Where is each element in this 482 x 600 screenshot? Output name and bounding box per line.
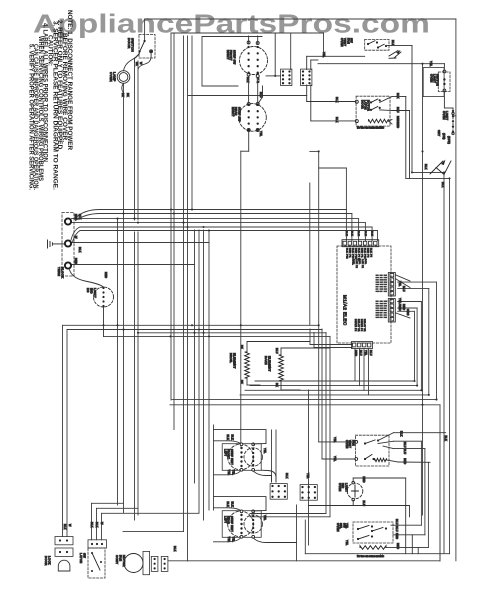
wire — [398, 301, 422, 303]
wire — [100, 209, 346, 211]
wire — [80, 230, 378, 232]
svg-text:BLK: BLK — [350, 231, 352, 236]
svg-text:RED: RED — [74, 214, 78, 220]
svg-text:DOL: DOL — [364, 259, 366, 265]
svg-text:BLK: BLK — [371, 231, 373, 236]
door lock connectors — [55, 537, 73, 545]
svg-text:RED: RED — [403, 458, 407, 464]
wire — [240, 394, 429, 396]
wire — [386, 44, 412, 46]
ground — [48, 240, 65, 248]
latch connectors — [88, 540, 107, 548]
output wires right — [392, 96, 406, 98]
svg-text:BLK P5: BLK P5 — [369, 248, 371, 258]
svg-text:SWITCH: SWITCH — [436, 74, 440, 86]
svg-text:BLK: BLK — [78, 247, 82, 253]
svg-text:YEL: YEL — [306, 473, 310, 479]
wire — [208, 230, 210, 510]
wire — [455, 19, 457, 561]
svg-text:RED: RED — [395, 533, 399, 539]
svg-text:BLK P12: BLK P12 — [345, 248, 347, 259]
svg-text:RED: RED — [104, 272, 108, 278]
wire — [345, 210, 347, 241]
svg-text:BLU: BLU — [359, 350, 363, 356]
wire — [345, 168, 347, 210]
surface unit switch right rear — [239, 104, 267, 132]
wire — [173, 33, 175, 430]
svg-text:BLK: BLK — [357, 231, 359, 236]
door latch heater — [369, 119, 389, 123]
svg-text:SURF SW: SURF SW — [232, 50, 236, 65]
svg-text:RED: RED — [396, 543, 400, 549]
wire — [248, 36, 250, 44]
board right connector 1 — [388, 273, 395, 297]
lower contact + heater — [364, 458, 366, 460]
svg-text:BLU: BLU — [395, 526, 399, 532]
wire — [250, 513, 326, 515]
connector P4 — [301, 69, 312, 86]
svg-text:W: W — [74, 236, 78, 239]
wire — [443, 172, 445, 553]
svg-text:SURF UNIT: SURF UNIT — [230, 449, 233, 465]
svg-text:GRY: GRY — [437, 130, 441, 136]
svg-text:BLU: BLU — [395, 519, 399, 525]
svg-text:TERM: TERM — [57, 267, 61, 277]
svg-text:BLK: BLK — [246, 77, 250, 83]
svg-text:RED: RED — [74, 258, 78, 264]
board top connector — [342, 240, 379, 247]
oven lamp — [117, 71, 130, 84]
wire lamp to switch — [124, 53, 140, 71]
svg-text:BLK: BLK — [231, 435, 235, 441]
wire — [101, 513, 103, 540]
control board M1/A2 ELEC — [337, 246, 391, 343]
svg-text:BLK: BLK — [173, 546, 177, 552]
svg-text:LEFT: LEFT — [223, 449, 226, 456]
wire — [368, 349, 370, 395]
relay contact — [367, 43, 369, 45]
svg-text:ORG: ORG — [406, 309, 410, 316]
right drop — [439, 405, 441, 561]
wire — [137, 61, 139, 220]
svg-text:BLK: BLK — [285, 473, 289, 479]
svg-text:BLU: BLU — [275, 348, 279, 354]
wire — [274, 33, 276, 76]
latch switch box — [88, 548, 105, 578]
wire — [92, 502, 124, 504]
wire — [137, 232, 139, 515]
svg-text:ELEMENT: ELEMENT — [268, 356, 272, 372]
svg-text:YEL: YEL — [345, 523, 349, 529]
door lock solenoid — [58, 560, 70, 571]
svg-text:SURF SW: SURF SW — [237, 107, 241, 122]
svg-text:DOOR: DOOR — [44, 556, 48, 566]
wire — [318, 151, 320, 442]
wire — [325, 333, 327, 514]
svg-text:RED P8: RED P8 — [366, 248, 368, 258]
svg-text:YEL: YEL — [429, 61, 433, 67]
junction arrow — [430, 161, 451, 175]
svg-text:BLK: BLK — [231, 502, 235, 508]
top bus — [145, 18, 456, 20]
wire BLU from rear unit — [258, 97, 263, 104]
svg-text:DOOR: DOOR — [127, 38, 131, 49]
wire — [96, 508, 98, 540]
wire — [170, 33, 172, 400]
wire — [313, 333, 315, 348]
wire — [138, 332, 326, 334]
box edge — [201, 37, 203, 87]
wire — [359, 349, 361, 386]
svg-text:RED: RED — [396, 122, 400, 128]
svg-text:(ON): (ON) — [442, 133, 446, 140]
svg-text:AppliancePartsPros.com: AppliancePartsPros.com — [33, 10, 430, 38]
wire — [91, 503, 93, 540]
svg-text:DRIVE P2: DRIVE P2 — [354, 319, 356, 332]
svg-text:BLK: BLK — [226, 435, 230, 441]
wire — [310, 344, 352, 346]
wire — [275, 430, 277, 482]
wire — [398, 310, 415, 312]
svg-text:BLK: BLK — [444, 436, 448, 442]
svg-text:BLK: BLK — [391, 40, 395, 46]
wire — [371, 227, 373, 241]
latch switch — [91, 552, 93, 554]
svg-text:OVEN: OVEN — [109, 72, 113, 82]
wire — [72, 242, 210, 244]
svg-text:BK: BK — [275, 383, 279, 387]
wire — [323, 33, 325, 56]
wire — [422, 64, 424, 515]
terminals — [355, 100, 358, 103]
svg-text:BLK: BLK — [345, 231, 347, 236]
svg-text:RED: RED — [402, 304, 406, 310]
svg-text:RED: RED — [362, 477, 366, 483]
door switch box — [139, 35, 155, 59]
svg-text:YEL: YEL — [364, 350, 368, 356]
wire — [364, 223, 366, 241]
svg-text:BLK: BLK — [424, 164, 428, 170]
oven light switch enclosure — [423, 68, 444, 97]
svg-text:FRONT: FRONT — [227, 449, 230, 459]
junction dots — [116, 218, 118, 220]
wire — [134, 61, 136, 220]
heating element — [375, 458, 387, 461]
switch — [371, 530, 373, 532]
svg-text:BLK: BLK — [226, 502, 230, 508]
wire — [363, 349, 365, 390]
svg-text:BLU: BLU — [402, 286, 406, 292]
svg-text:BLK: BLK — [63, 524, 67, 530]
feed wires — [307, 101, 356, 103]
wire — [104, 335, 331, 337]
door switch — [144, 40, 146, 42]
wire — [72, 218, 359, 220]
svg-text:DOL: DOL — [352, 259, 354, 265]
svg-text:SWITCH: SWITCH — [131, 38, 135, 52]
svg-text:LOCK: LOCK — [47, 556, 51, 565]
svg-text:LAMP: LAMP — [113, 72, 117, 82]
wire — [420, 441, 422, 525]
wire — [250, 516, 330, 518]
svg-text:BLK: BLK — [95, 522, 99, 528]
wire — [424, 449, 426, 535]
wire — [191, 36, 193, 210]
relay contact — [377, 46, 379, 48]
bottom bus — [168, 560, 440, 562]
svg-text:SURF UNIT: SURF UNIT — [230, 516, 233, 532]
wire — [202, 36, 262, 38]
connector P1 bottom — [270, 484, 287, 500]
wire — [354, 349, 356, 381]
svg-text:BLK: BLK — [364, 231, 366, 236]
svg-text:YEL: YEL — [345, 540, 349, 546]
wire — [97, 507, 139, 509]
svg-text:RED P1: RED P1 — [360, 248, 362, 258]
wire — [80, 226, 372, 228]
convection fan motor — [124, 554, 143, 573]
svg-text:W: W — [68, 524, 72, 527]
wire — [123, 84, 125, 513]
wire curves to terminal — [76, 210, 101, 221]
oven indicator light — [347, 483, 363, 499]
wire — [439, 520, 441, 561]
wire — [138, 53, 151, 69]
heating element — [245, 352, 250, 378]
svg-text:HS: HS — [86, 288, 90, 293]
contact — [370, 101, 372, 103]
svg-text:BK: BK — [240, 380, 244, 384]
svg-text:LIGHT: LIGHT — [445, 111, 449, 120]
svg-text:DOL: DOL — [358, 259, 360, 265]
wire — [308, 390, 310, 545]
door switch feed — [144, 19, 146, 41]
oven switch box — [356, 96, 390, 126]
wire — [123, 531, 184, 533]
wires surface unit lower — [214, 497, 267, 511]
svg-text:L1N P2: L1N P2 — [361, 259, 363, 269]
wire — [198, 230, 200, 513]
svg-text:SW: SW — [82, 553, 86, 558]
board bottom connector — [352, 342, 373, 349]
wire — [203, 230, 205, 520]
wire — [443, 64, 445, 70]
wire — [427, 462, 429, 547]
svg-text:DRIVE P2: DRIVE P2 — [360, 319, 362, 332]
surface unit left rear + infinite switch — [222, 511, 261, 538]
wire — [398, 307, 417, 309]
svg-text:(OFF): (OFF) — [447, 136, 451, 144]
svg-text:IND: IND — [90, 288, 94, 294]
svg-text:MOTOR: MOTOR — [367, 100, 371, 111]
wire — [310, 150, 319, 152]
wire — [240, 151, 242, 446]
svg-text:for use on some models: for use on some models — [357, 126, 385, 130]
svg-text:M1/A2 ELEC: M1/A2 ELEC — [343, 295, 348, 326]
svg-text:LIGHT: LIGHT — [93, 288, 97, 298]
svg-text:BLU: BLU — [259, 92, 263, 98]
wire — [213, 425, 215, 510]
wire — [72, 264, 195, 266]
wire — [67, 329, 322, 331]
wire — [172, 399, 437, 401]
indicator wires — [352, 478, 354, 482]
svg-text:BLK: BLK — [78, 214, 82, 220]
wire — [72, 222, 366, 224]
svg-text:LEFT: LEFT — [223, 516, 226, 523]
wire — [314, 347, 352, 349]
wire — [329, 336, 331, 517]
svg-text:YEL: YEL — [263, 515, 267, 521]
wire — [117, 219, 119, 505]
svg-text:BK: BK — [240, 345, 244, 349]
svg-text:BLK: BLK — [396, 93, 400, 99]
oven selector switch box — [353, 522, 393, 543]
svg-text:SW: SW — [350, 38, 354, 43]
surface indicator light — [94, 287, 114, 307]
wire — [428, 289, 430, 395]
wire — [248, 132, 250, 152]
wires surface unit upper — [214, 430, 267, 444]
wire — [309, 329, 311, 345]
svg-text:BLK: BLK — [400, 431, 404, 437]
wire — [102, 512, 200, 514]
junction arrow — [389, 51, 401, 59]
svg-text:REAR: REAR — [227, 516, 230, 524]
switch — [357, 538, 359, 540]
svg-text:RELAY K1: RELAY K1 — [363, 319, 366, 332]
svg-text:RED: RED — [354, 350, 358, 356]
svg-text:BLOCK: BLOCK — [61, 267, 65, 278]
wire — [398, 281, 437, 283]
svg-text:BLU: BLU — [403, 442, 407, 448]
wire diagonal — [396, 275, 410, 281]
svg-text:BROIL: BROIL — [229, 353, 233, 363]
bake relay box — [365, 39, 389, 50]
wire — [319, 441, 355, 443]
svg-text:BLK: BLK — [335, 97, 339, 103]
svg-text:FAN: FAN — [118, 555, 122, 561]
svg-text:YEL: YEL — [259, 131, 263, 137]
wire — [398, 288, 429, 290]
wire — [271, 430, 273, 482]
wire — [66, 330, 68, 537]
svg-text:YEL/RED: YEL/RED — [398, 298, 402, 311]
relay text group — [376, 301, 379, 303]
svg-text:BK: BK — [126, 93, 130, 97]
grid feed — [290, 33, 292, 70]
wire — [188, 95, 307, 97]
svg-text:BLK P12: BLK P12 — [363, 248, 365, 259]
svg-text:BLK: BLK — [90, 522, 94, 528]
svg-text:FAN: FAN — [351, 440, 355, 446]
svg-text:RED P1: RED P1 — [348, 248, 350, 258]
wire — [351, 214, 353, 241]
contact — [370, 109, 372, 111]
svg-text:BK: BK — [135, 62, 139, 66]
svg-text:for use on some models: for use on some models — [357, 554, 385, 558]
svg-text:RED P11: RED P11 — [354, 248, 356, 260]
sensor link — [319, 167, 347, 169]
wire — [420, 302, 422, 391]
switch — [364, 442, 366, 444]
wire — [63, 324, 319, 326]
terminals — [355, 441, 358, 444]
wire — [250, 385, 417, 387]
wire — [255, 380, 415, 382]
svg-text:BAKE: BAKE — [264, 356, 268, 365]
board right connector 2 — [388, 299, 395, 323]
connector P2 bottom — [300, 485, 317, 501]
wire — [134, 232, 136, 520]
wire — [436, 282, 438, 400]
note text block — [27, 10, 73, 190]
oven light switch box — [438, 72, 450, 92]
wire — [62, 325, 64, 536]
wire — [100, 213, 352, 215]
terminal block — [62, 213, 74, 277]
svg-text:BLK: BLK — [335, 117, 339, 123]
wire — [358, 219, 360, 241]
svg-text:YEL: YEL — [322, 52, 326, 58]
svg-text:BLU: BLU — [396, 107, 400, 113]
svg-text:YEL: YEL — [263, 448, 267, 454]
wire — [321, 329, 323, 459]
svg-text:BLU: BLU — [369, 350, 373, 356]
wire — [449, 178, 451, 553]
wire — [304, 520, 306, 554]
wire — [170, 404, 440, 406]
svg-text:LIGHT: LIGHT — [344, 483, 348, 492]
switch terminals — [443, 70, 446, 73]
wire — [187, 36, 189, 561]
wire — [194, 230, 196, 483]
relay text group — [376, 275, 379, 277]
svg-text:RELAY K1: RELAY K1 — [357, 319, 360, 332]
svg-text:L1N P2: L1N P2 — [355, 259, 357, 269]
svg-text:ELEMENT: ELEMENT — [233, 353, 237, 369]
wire — [416, 308, 418, 386]
switch — [357, 528, 359, 530]
wire — [202, 85, 238, 87]
svg-text:BLK: BLK — [441, 182, 445, 188]
svg-text:5. VERIFY PROPER OPERATION AFT: 5. VERIFY PROPER OPERATION AFTER SERVICI… — [27, 44, 34, 190]
wire — [183, 36, 185, 532]
output diagonals — [380, 97, 392, 103]
svg-text:BLU: BLU — [403, 449, 407, 455]
top box line — [171, 32, 324, 34]
wire — [245, 389, 421, 391]
surface unit left front + infinite switch — [222, 444, 261, 471]
wire — [414, 311, 416, 381]
heating element — [279, 355, 284, 381]
svg-text:W: W — [139, 62, 143, 65]
bottom bus — [305, 553, 449, 555]
wire — [309, 183, 311, 325]
connector P3 — [281, 69, 292, 86]
wire — [377, 231, 379, 241]
fan connectors — [151, 556, 158, 571]
heating element — [360, 546, 386, 550]
surface unit switch right front — [240, 47, 268, 75]
svg-text:W: W — [100, 522, 104, 525]
svg-text:BK: BK — [121, 93, 125, 97]
fan switch box — [355, 435, 389, 466]
cluster left edge — [296, 505, 298, 561]
